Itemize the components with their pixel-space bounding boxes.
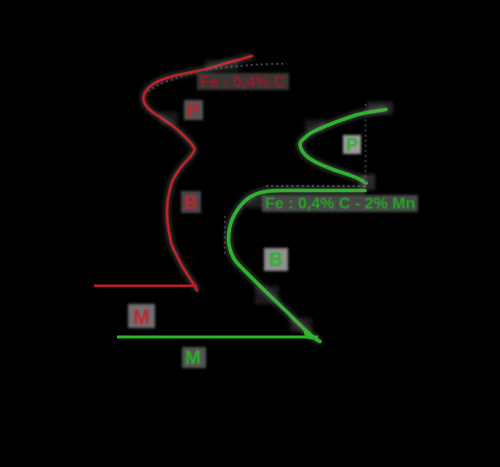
svg-text:P: P: [346, 135, 358, 155]
svg-text:Fe : 0,4% C: Fe : 0,4% C: [200, 74, 286, 91]
red steel composition label: Fe : 0,4% C: [197, 73, 289, 91]
green upper C curve (pearlite, Fe 0,4% C - 2% Mn): [300, 110, 386, 184]
svg-text:M: M: [185, 348, 201, 369]
svg-text:Fe : 0,4% C - 2% Mn: Fe : 0,4% C - 2% Mn: [265, 196, 415, 213]
svg-text:M: M: [133, 307, 150, 329]
red Ms martensite line: [94, 283, 197, 289]
gray halo box + red label B (lower): [181, 191, 201, 214]
gray halo under green lower C curve: [228, 190, 365, 341]
dotted vertical line at x=365: [365, 104, 367, 190]
red TTT transformation curve (Fe 0,4% C): [143, 56, 252, 291]
gray halo under green upper C curve: [300, 110, 386, 184]
gray halo box + red label M: [128, 304, 155, 329]
gray halo box + green label B (inside lower C): [264, 248, 288, 271]
gray halo box + green label M: [182, 347, 206, 369]
svg-text:P: P: [187, 101, 200, 122]
green lower C curve (bainite): [228, 190, 365, 341]
dotted vertical line at x=225: [224, 216, 226, 256]
green steel composition label: Fe : 0,4% C - 2% Mn: [262, 195, 418, 213]
gray halo box + green label P (inside upper C): [343, 135, 361, 155]
gray halo under red TTT curve: [143, 56, 252, 291]
gray halo box + red label P (upper): [184, 100, 203, 122]
arrowhead at junction of bainite curve and green Ms line: [303, 330, 321, 341]
dotted black A-line along top of red curve: [148, 64, 287, 92]
faint JPEG-artifact gray patches: [160, 60, 393, 332]
svg-text:B: B: [269, 250, 283, 271]
green Ms martensite line: [117, 334, 318, 340]
svg-text:B: B: [184, 193, 198, 214]
dotted line above green bainite shelf: [266, 185, 366, 187]
